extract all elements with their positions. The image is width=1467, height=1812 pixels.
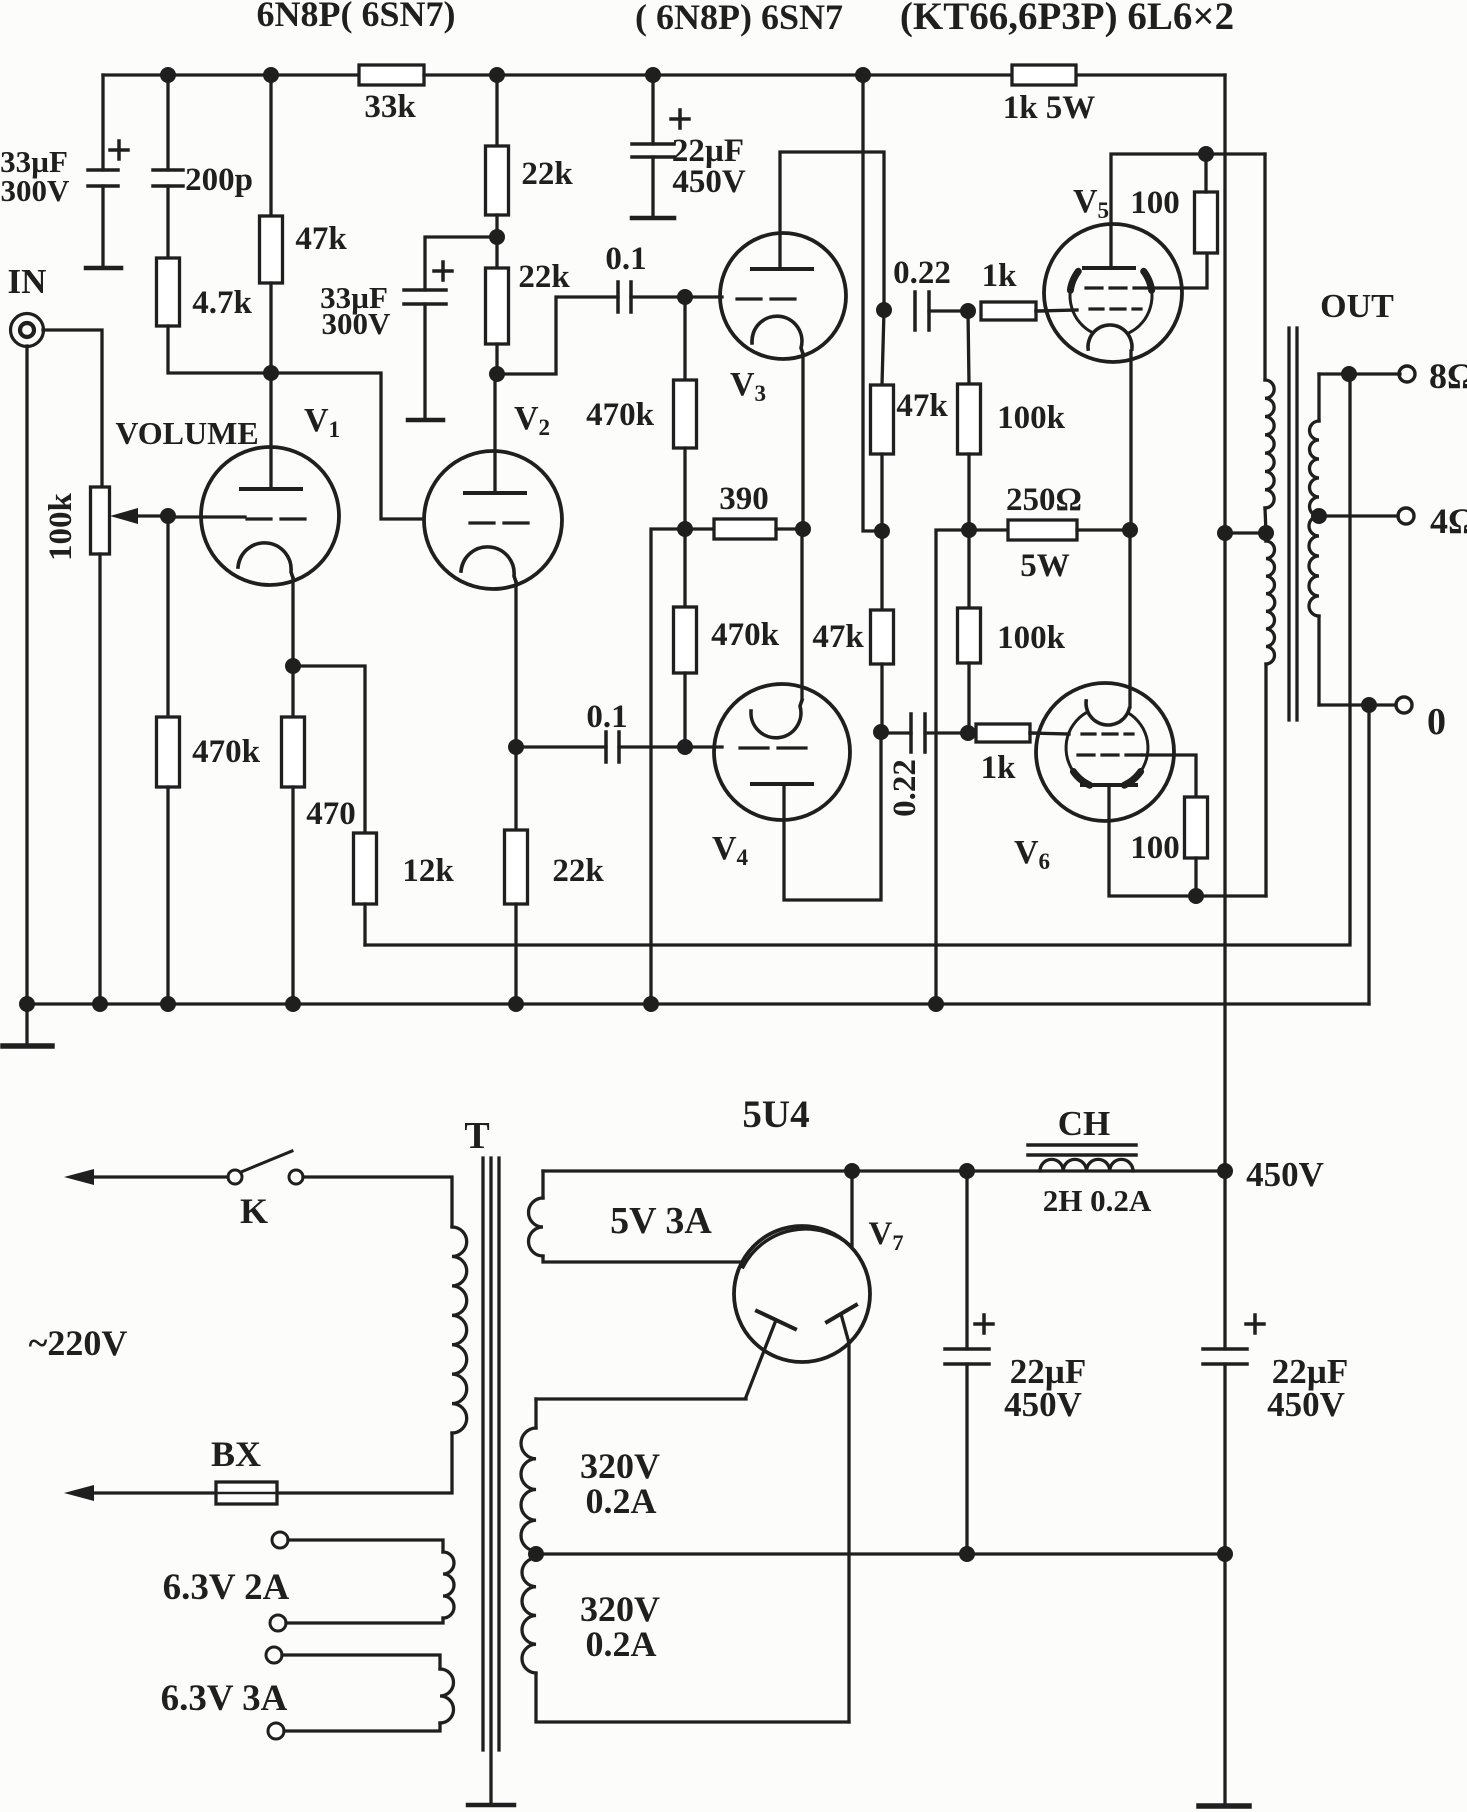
V1 plate lead — [269, 373, 272, 489]
svg-text:300V: 300V — [322, 306, 392, 341]
label 0.1 upper — [605, 241, 646, 277]
connector IN jack — [11, 314, 44, 347]
label 0.22 lower (rotated) — [887, 759, 923, 817]
node bias mid — [961, 522, 977, 538]
label 47k — [295, 221, 347, 257]
V5 cathode lead — [1129, 351, 1132, 530]
wire node to C33uF-300V — [425, 237, 497, 290]
node 8ohm feedback — [1341, 366, 1357, 382]
capacitor 22uF 450V (2) — [1203, 1315, 1264, 1364]
wire 47k1 leads — [882, 310, 884, 385]
node output cathodes — [1122, 522, 1138, 538]
V2 cathode arc — [461, 547, 516, 582]
node V6 plate 100 — [1188, 888, 1204, 904]
capacitor 33uF 300V (V2 decouple) — [404, 262, 452, 304]
wire 22k lower to V2 plate node — [495, 344, 498, 374]
resistor 390 (V3/V4 cathode) — [714, 519, 776, 539]
tube V4 envelope — [714, 684, 850, 820]
OT core — [1289, 328, 1297, 720]
svg-text:6N8P( 6SN7): 6N8P( 6SN7) — [257, 0, 456, 34]
wire 320V lower bottom — [536, 1673, 849, 1722]
svg-text:450V: 450V — [672, 164, 746, 200]
capacitor 33uF 300V (input stage filter) — [88, 141, 128, 186]
node V3/V4 cathode join — [795, 521, 811, 537]
wire 8ohm — [1319, 372, 1400, 375]
label 0.22 upper — [893, 255, 951, 291]
wire B+ rail left section — [103, 73, 359, 76]
label BX — [211, 1434, 261, 1474]
wire 47k2 top — [880, 531, 883, 610]
resistor 33k (rail series) — [359, 65, 424, 125]
arrow mains top — [64, 1169, 228, 1185]
T 320V upper coil — [521, 1428, 536, 1551]
label 33uF 300V — [0, 144, 70, 208]
V7 plate left — [746, 1311, 795, 1397]
V6 grid dashes — [1082, 732, 1133, 735]
terminal 6.3V3A bottom — [268, 1723, 284, 1739]
svg-text:T: T — [464, 1115, 489, 1157]
node 22k junction — [489, 229, 505, 245]
fuse BX — [216, 1482, 277, 1504]
node rail-200p — [160, 67, 176, 83]
T core — [483, 1158, 499, 1803]
wire 22k to node — [495, 215, 498, 237]
svg-text:6.3V 3A: 6.3V 3A — [161, 1678, 288, 1719]
svg-text:0.1: 0.1 — [586, 699, 627, 735]
svg-text:0.22: 0.22 — [887, 759, 923, 817]
label 6.3V 3A — [161, 1678, 288, 1719]
label 22k lower — [518, 259, 570, 295]
label 0 — [1427, 701, 1446, 743]
node 450V-C22uF — [959, 1163, 975, 1179]
wire IN sleeve to ground rail — [25, 346, 28, 1004]
label 450V — [1246, 1155, 1324, 1194]
tube V6 envelope — [1036, 683, 1174, 821]
resistor 22k (V2 cathode) — [505, 830, 528, 904]
wire cathode to R470 — [291, 666, 294, 717]
resistor 470k (V3 grid leak) — [674, 380, 697, 448]
V5 grid dashes — [1090, 307, 1141, 310]
label 12k — [402, 853, 454, 889]
wire 390 right — [776, 527, 803, 530]
node return C1 — [959, 1546, 975, 1562]
svg-text:320V: 320V — [580, 1589, 660, 1629]
wire V2 plate to C0.1 — [497, 297, 618, 374]
V2 plate lead — [493, 374, 496, 493]
svg-text:OUT: OUT — [1320, 288, 1394, 325]
wire K to primary — [303, 1177, 452, 1227]
capacitor 22uF 450V (B+ filter) — [632, 110, 689, 157]
resistor 47k (V1 plate load) — [260, 216, 283, 283]
resistor 250ohm 5W — [1008, 520, 1077, 540]
resistor 100 (V6 screen) — [1185, 797, 1208, 858]
label IN — [8, 262, 47, 301]
V7 filament dome — [743, 1229, 851, 1267]
svg-text:4Ω: 4Ω — [1430, 501, 1467, 541]
V3 grid dashes — [737, 297, 795, 300]
wire C22uF-1 top — [965, 1171, 968, 1349]
wire 100k1 bottom — [967, 454, 970, 530]
V5 beam mark left — [1070, 271, 1078, 290]
wire 6.3V2A top — [288, 1540, 443, 1552]
wire 450V line — [543, 1169, 1225, 1172]
resistor 100k (V6 grid leak) — [958, 608, 981, 663]
wire 470k2 to V4 grid — [683, 673, 686, 747]
OT primary tap stub — [1265, 508, 1266, 541]
ground symbol main — [3, 1004, 52, 1046]
svg-text:VOLUME: VOLUME — [115, 415, 258, 451]
resistor 12k (feedback) — [354, 833, 377, 904]
wire pot bottom to ground rail — [98, 554, 101, 1004]
wire 4ohm — [1319, 514, 1398, 517]
resistor 100 (V5 screen) — [1195, 192, 1218, 253]
node 450V-V7 — [844, 1163, 860, 1179]
node 936-ground — [928, 996, 944, 1012]
label V1 — [304, 402, 340, 443]
V5 plate bar — [1084, 266, 1134, 270]
terminal 6.3V3A top — [266, 1647, 282, 1663]
node wiper-grid — [160, 508, 176, 524]
wire 1k to V5 grid — [1036, 309, 1046, 312]
label 470k v3 — [586, 397, 655, 433]
terminal 6.3V2A top — [272, 1532, 288, 1548]
wire wiper node to V1 grid — [168, 515, 245, 518]
label 250 — [1006, 482, 1082, 584]
wire 100 to V6 plate node — [1194, 858, 1197, 896]
wire 47k1 bottom — [880, 454, 883, 531]
svg-text:1k 5W: 1k 5W — [1003, 90, 1096, 126]
svg-text:100: 100 — [1130, 830, 1180, 866]
node V1 cathode — [285, 658, 301, 674]
label VOLUME — [115, 415, 258, 451]
wire rail to C22uF top — [651, 75, 654, 144]
label 200p — [185, 162, 253, 198]
label V5 — [1073, 183, 1109, 224]
label 47k v4load — [812, 619, 864, 655]
node gnd 470 — [285, 996, 301, 1012]
wire 100k2 top — [967, 530, 970, 608]
label 5U4 — [742, 1093, 809, 1136]
node C0.22 upper left — [876, 302, 892, 318]
switch K — [228, 1151, 303, 1184]
label 22uF 450V (1) — [1004, 1352, 1086, 1424]
OT secondary top lead — [1317, 374, 1320, 421]
svg-text:300V: 300V — [1, 173, 71, 208]
wire C22uF-1 bottom — [965, 1364, 968, 1554]
node 651-ground — [643, 996, 659, 1012]
potentiometer 100k body — [91, 487, 110, 554]
svg-text:4.7k: 4.7k — [192, 285, 252, 321]
resistor 47k (V4 plate load) — [871, 610, 894, 664]
node V4 grid — [677, 739, 693, 755]
label V4 — [712, 830, 749, 871]
wire C200p to R4.7k — [166, 186, 169, 258]
wire 6.3V3A top — [282, 1655, 440, 1669]
OT secondary upper coil — [1310, 421, 1320, 516]
wire 100k1 top — [968, 311, 969, 384]
capacitor 22uF 450V (1) — [945, 1315, 993, 1364]
label 1k v6 — [981, 750, 1017, 786]
wire 0ohm — [1319, 703, 1396, 706]
OT primary upper lead — [1263, 154, 1266, 380]
V3 plate lead and wire to C0.22 — [780, 152, 884, 310]
node 0ohm ground — [1361, 697, 1377, 713]
svg-text:5W: 5W — [1020, 548, 1070, 584]
node gnd pot — [92, 996, 108, 1012]
V2 cathode lead — [514, 582, 517, 747]
wire R470 to ground rail — [291, 787, 294, 1004]
T primary coil — [452, 1227, 467, 1433]
svg-text:100k: 100k — [43, 492, 79, 561]
wire 390 left — [685, 527, 714, 530]
svg-text:100k: 100k — [997, 400, 1066, 436]
label 390 — [719, 481, 769, 517]
svg-text:100: 100 — [1130, 185, 1180, 221]
wire rail right end down to OT tap — [1223, 75, 1226, 533]
node V2 cathode — [508, 739, 524, 755]
svg-text:250Ω: 250Ω — [1006, 482, 1082, 518]
svg-text:CH: CH — [1058, 1104, 1111, 1143]
label 470k — [192, 734, 261, 770]
V1 cathode lead — [291, 578, 294, 666]
resistor 1k (V5 grid stopper) — [981, 302, 1036, 320]
svg-text:(KT66,6P3P) 6L6×2: (KT66,6P3P) 6L6×2 — [900, 0, 1234, 38]
node OT centre tap left — [1217, 525, 1233, 541]
terminal 6.3V2A bottom — [270, 1615, 286, 1631]
svg-text:( 6N8P) 6SN7: ( 6N8P) 6SN7 — [635, 0, 843, 37]
wire 390 node to ground — [651, 529, 685, 1004]
V6 cathode lead up — [1128, 530, 1131, 707]
label 5V 3A — [610, 1200, 712, 1242]
label OUT — [1320, 288, 1394, 325]
wire node to 22k lower — [495, 237, 498, 268]
V5 plate lead wire — [1111, 154, 1265, 268]
wire C0.1low to V4 grid — [619, 745, 722, 748]
label 0.1 lower — [586, 699, 627, 735]
label V2 — [514, 400, 550, 441]
V3 cathode lead — [801, 354, 804, 529]
wire 470k to 390 node — [683, 448, 686, 529]
T 320V lower coil — [522, 1558, 536, 1673]
label V6 — [1014, 834, 1050, 875]
wire 100k2 bottom — [967, 663, 970, 733]
label 470k v4 — [711, 617, 780, 653]
wire 0 tap to ground rail — [1367, 705, 1370, 1004]
label 2H 0.2A — [1043, 1183, 1152, 1218]
label T — [464, 1115, 489, 1157]
label V3 — [730, 366, 766, 407]
svg-text:470k: 470k — [586, 397, 655, 433]
tube V2 envelope — [424, 451, 562, 589]
wire grid node down to R470k — [166, 516, 169, 717]
V5 beam mark right — [1144, 271, 1152, 290]
chassis bar of 33uF-2 — [408, 418, 443, 423]
wire ground rail — [27, 1002, 1369, 1005]
wire 22k to ground rail — [514, 904, 517, 1004]
label 47k v3load — [896, 388, 948, 424]
label 320V 0.2A upper — [580, 1446, 660, 1521]
wire rail to C 33uF-300V — [101, 75, 104, 170]
wire C33uF to bar — [101, 186, 104, 268]
resistor 22k (decoupling upper) — [486, 146, 509, 215]
V6 beam mark right — [1124, 772, 1140, 786]
V4 cathode lead up — [800, 529, 803, 700]
V2 grid dashes — [470, 521, 528, 524]
svg-text:47k: 47k — [812, 619, 864, 655]
node 47k mid — [874, 523, 890, 539]
wire B+ feed down — [863, 75, 882, 531]
node OT sec 4ohm tap — [1311, 508, 1327, 524]
svg-text:12k: 12k — [402, 853, 454, 889]
tube V5 envelope — [1044, 224, 1182, 362]
V6 beam mark left — [1073, 772, 1089, 786]
svg-text:5V 3A: 5V 3A — [610, 1200, 712, 1242]
wire V3 grid to 470k — [683, 297, 686, 380]
svg-text:450V: 450V — [1004, 1385, 1082, 1424]
resistor 1k (V6 grid stopper) — [976, 724, 1030, 742]
svg-text:0.2A: 0.2A — [586, 1481, 657, 1521]
choke CH coil — [1040, 1159, 1133, 1171]
capacitor 0.1 (to V3 grid) — [618, 282, 631, 312]
V6 screen lead to 100 — [1142, 755, 1196, 797]
label 22uF 450V (2) — [1267, 1352, 1348, 1424]
V6 cathode arc — [1086, 699, 1130, 725]
wire R470k to ground rail — [166, 787, 169, 1004]
label 470 — [306, 796, 356, 832]
V4 plate lead — [784, 732, 881, 900]
resistor 47k (V3 plate load) — [871, 385, 894, 454]
node gnd 470k — [160, 996, 176, 1012]
node gnd jack — [19, 996, 35, 1012]
node 450V right — [1217, 1163, 1233, 1179]
V4 cathode arc — [751, 700, 802, 738]
resistor 100k (V5 grid leak) — [958, 384, 981, 454]
wire 6.3V2A bottom — [286, 1618, 443, 1623]
capacitor 0.1 (to V4 grid) — [606, 732, 619, 762]
svg-text:6.3V 2A: 6.3V 2A — [163, 1567, 290, 1608]
node V3 grid — [677, 289, 693, 305]
resistor 470k (V4 grid leak) — [674, 607, 697, 673]
svg-text:0.2A: 0.2A — [586, 1624, 657, 1664]
svg-text:450V: 450V — [1267, 1385, 1345, 1424]
capacitor 200p — [153, 170, 183, 186]
ground symbol PSU — [1199, 1803, 1249, 1809]
node 390 left — [677, 521, 693, 537]
label V7 — [868, 1216, 903, 1255]
OT primary upper coil — [1265, 380, 1274, 508]
svg-text:470k: 470k — [192, 734, 261, 770]
T 6.3V3A coil — [440, 1669, 454, 1723]
svg-text:0: 0 — [1427, 701, 1446, 743]
V5 grid lead — [1036, 310, 1077, 311]
svg-text:200p: 200p — [185, 162, 253, 198]
node rail-47k — [263, 67, 279, 83]
V5 inner circle — [1070, 290, 1152, 333]
node V5 plate 100 — [1198, 146, 1214, 162]
svg-text:450V: 450V — [1246, 1155, 1324, 1194]
wire R4.7k to V1 plate node — [168, 326, 271, 373]
wire 5V winding top — [541, 1171, 544, 1198]
resistor 470k (V1 grid leak) — [157, 717, 180, 787]
label 100k (rotated) — [43, 492, 79, 561]
V1 plate bar — [241, 487, 301, 491]
T 5V winding coil — [529, 1198, 544, 1256]
node 22k-ground — [508, 996, 524, 1012]
node rail-22uF — [645, 67, 661, 83]
wire C0.22u right — [929, 309, 968, 312]
chassis bar of 22uF top — [632, 216, 674, 221]
label 22uF 450V top — [672, 133, 746, 200]
wire HT return — [536, 1552, 1225, 1555]
wire 47k2 bottom — [880, 664, 883, 732]
wire V2 cathode to 22k — [514, 747, 517, 830]
svg-text:1k: 1k — [981, 750, 1017, 786]
wire 1k to V6 grid — [1030, 731, 1038, 734]
tube V7 envelope — [734, 1226, 870, 1362]
terminal 8ohm — [1399, 366, 1415, 382]
V3 cathode arc — [752, 316, 803, 354]
wire C22uF stem — [651, 157, 654, 218]
node V5 grid R — [960, 303, 976, 319]
wire feedback line to OT 8ohm tap — [365, 374, 1350, 945]
wire 6.3V3A bottom — [284, 1723, 440, 1731]
label CH — [1058, 1104, 1111, 1143]
wire C0.1 to V3 grid — [631, 295, 722, 298]
label 8ohm — [1429, 356, 1467, 396]
svg-text:K: K — [240, 1191, 268, 1231]
svg-text:47k: 47k — [295, 221, 347, 257]
tube V3 envelope — [720, 233, 846, 359]
label 320V 0.2A lower — [580, 1589, 660, 1664]
wire tap to coil — [1225, 531, 1266, 534]
wire R47k to plate node — [269, 283, 272, 373]
node rail-B+feed — [855, 67, 871, 83]
label (6N8P) 6SN7 for V3/V4 — [635, 0, 843, 37]
wire bias mid to ground — [936, 530, 969, 1004]
svg-text:0.22: 0.22 — [893, 255, 951, 291]
resistor 4.7k — [157, 258, 180, 326]
svg-text:33k: 33k — [364, 89, 416, 125]
resistor 1k 5W (screen feed) — [1003, 65, 1096, 126]
wire OT tap to 450V — [1223, 533, 1226, 1171]
label 1k v5 — [982, 258, 1018, 294]
svg-text:8Ω: 8Ω — [1429, 356, 1467, 396]
label 4ohm — [1430, 501, 1467, 541]
wire HT return to ground — [1223, 1554, 1226, 1805]
svg-text:470k: 470k — [711, 617, 780, 653]
node OT centre tap — [1258, 525, 1274, 541]
node V1 plate — [263, 365, 279, 381]
wire C33uF stem — [423, 304, 426, 420]
svg-text:5U4: 5U4 — [742, 1093, 809, 1136]
OT secondary lower coil — [1309, 516, 1319, 616]
wire cathode to R12k — [293, 666, 365, 833]
OT primary lower lead — [1264, 664, 1267, 896]
label 100 v5 — [1130, 185, 1180, 221]
svg-text:2H 0.2A: 2H 0.2A — [1043, 1183, 1152, 1218]
svg-text:BX: BX — [211, 1434, 261, 1474]
svg-text:IN: IN — [8, 262, 47, 301]
node V4 plate join — [873, 724, 889, 740]
V1 cathode arc — [238, 543, 293, 578]
V4 grid dashes — [740, 746, 806, 749]
wire C0.22 lower wire — [881, 731, 911, 734]
label 6N8P(6SN7) for V1/V2 — [257, 0, 456, 34]
wire rail to C200p — [166, 75, 169, 170]
label 6.3V 2A — [163, 1567, 290, 1608]
wire 390node down 470k2 — [683, 529, 686, 607]
V7 cathode lead up — [850, 1171, 853, 1246]
